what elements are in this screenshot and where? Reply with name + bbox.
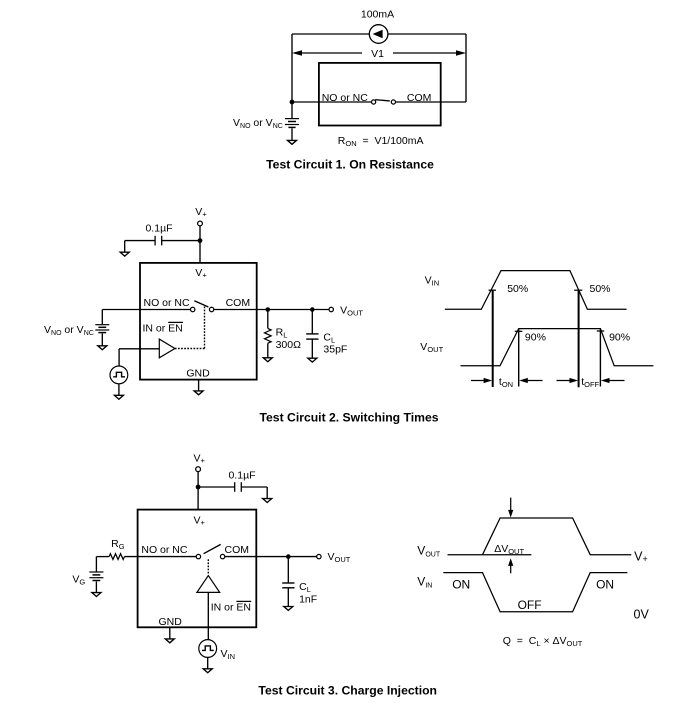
label ON left [452,578,470,592]
wire COM to loop [396,101,467,103]
marker line tON end [518,329,520,387]
terminal V+ [198,221,203,226]
DUT box U3 [138,510,257,628]
buffer driver A2 [197,576,220,593]
pin label GND [186,368,210,380]
capacitor CL 1nF [282,557,294,607]
caption Test Circuit 3 [258,684,437,698]
ground below RL [263,358,272,362]
marker line tOFF start [578,290,580,387]
trace VOUT pulse [483,518,632,555]
label V+ supply [193,452,205,465]
ground below GND pin [194,380,203,395]
svg-text:V1: V1 [371,48,384,60]
label dVOUT [494,543,524,556]
switch S1 [372,100,396,104]
battery V1 source [285,102,299,127]
label 90% fall [609,332,630,344]
label VIN (waveform) [417,575,432,590]
svg-text:0V: 0V [634,607,650,621]
marker line tOFF end [599,329,601,387]
ground below pulse generator [203,657,212,672]
label RG [111,538,125,551]
label VIN [221,648,236,661]
wire buffer to pulse generator [207,592,209,639]
pin label NO or NC [141,544,188,556]
ground below battery [98,334,107,350]
label 0V level [634,607,650,621]
svg-text:ON: ON [452,578,470,592]
marker line tON start [492,290,494,387]
dimension arrow dVOUT bottom [508,558,513,573]
trace VIN [445,271,627,310]
node CL junction [310,307,315,312]
label V_NO or V_NC [233,117,283,130]
dimension arrow V1 [292,48,466,60]
label VOUT [340,304,363,317]
value label RL 300 [276,327,302,351]
svg-text:300Ω: 300Ω [276,339,302,351]
value label 0.1uF [145,223,172,235]
value label CL 1nF [299,581,317,605]
buffer driver A1 [159,339,175,358]
svg-text:GND: GND [159,616,183,628]
switch S3 [196,544,225,558]
svg-text:50%: 50% [507,283,528,295]
wire top loop V1 [292,34,466,102]
svg-text:Test Circuit 1. On Resistance: Test Circuit 1. On Resistance [266,158,434,172]
svg-text:90%: 90% [525,332,546,344]
wire NO/NC to node [292,101,372,103]
dashed control line [207,559,209,574]
tick 50% rise [489,289,497,291]
svg-text:Test Circuit 2. Switching Time: Test Circuit 2. Switching Times [259,410,438,424]
pin label COM [407,92,432,104]
wire COM to VOUT [225,556,317,558]
value label CL 35pF [323,331,347,355]
dimension arrow tON [471,376,543,389]
DUT box U2 [140,263,257,380]
pulse generator VIN source [199,640,217,658]
switch S2 [191,301,214,312]
trace VOUT [461,329,654,366]
svg-text:35pF: 35pF [323,344,347,356]
pin label IN or EN (overline) [143,322,184,334]
ground below battery [288,128,297,144]
ground below CL [308,358,317,362]
svg-text:IN or EN: IN or EN [143,322,183,334]
capacitor CL 35pF [306,310,318,359]
current source I1 100mA [369,25,388,44]
label VOUT [328,551,351,564]
terminal VOUT [329,307,333,311]
wire pulse gen to buffer [119,349,159,366]
label V_NO or V_NC [44,324,94,337]
pin label NO or NC [322,92,369,104]
terminal VOUT [317,554,321,558]
label 90% rise [525,332,546,344]
node junction at battery [290,100,295,105]
ground at C2 [263,487,272,503]
battery V_NO/V_NC [95,310,109,333]
pin label GND [159,616,183,628]
node RL junction [266,307,271,312]
pin label NO or NC [144,297,191,309]
tick 90% fall [597,330,604,332]
resistor RG [96,554,196,560]
svg-text:OFF: OFF [518,598,542,612]
svg-text:0.1µF: 0.1µF [228,469,255,481]
pin label COM [225,544,250,556]
node V+ junction [198,238,203,243]
DUT box U1 [319,63,441,126]
label VG [72,574,85,587]
label ON right [596,578,614,592]
dimension arrow dVOUT top [508,498,513,518]
svg-text:NO or NC: NO or NC [144,297,191,309]
svg-text:COM: COM [226,297,251,309]
caption Test Circuit 2 [259,410,438,424]
wire V+ down to box [199,226,201,263]
svg-text:100mA: 100mA [361,9,394,21]
wire V+ down to box [197,472,199,510]
dimension arrow tOFF [557,376,625,389]
svg-text:Test Circuit 3. Charge Injecti: Test Circuit 3. Charge Injection [258,684,437,698]
pin label V+ (box) [195,267,207,280]
label VOUT (waveform) [420,341,443,354]
svg-text:1nF: 1nF [299,593,317,605]
ground below CL [284,607,293,611]
label OFF [518,598,542,612]
tick 50% fall [574,289,582,291]
resistor RL 300ohm [264,310,271,358]
ground below VG [92,581,101,596]
wire battery to switch [102,309,190,311]
ground below GND pin [165,627,174,643]
label VOUT (waveform) [417,544,441,559]
svg-text:0.1µF: 0.1µF [145,223,172,235]
capacitor C2 0.1uF [198,482,267,492]
ground below pulse generator [114,384,123,399]
pin label IN or EN (overline) [211,601,252,613]
label 100mA [361,9,394,21]
battery VG [89,557,103,581]
wire COM to VOUT [214,309,329,311]
label VIN (waveform) [425,275,440,288]
svg-text:50%: 50% [590,283,611,295]
terminal V+ [196,467,201,472]
svg-text:GND: GND [186,368,210,380]
label V+ supply [195,206,207,219]
svg-text:ON: ON [596,578,614,592]
dashed control line [175,305,205,348]
label 50% fall [590,283,611,295]
pin label COM [226,297,251,309]
trace VOUT baseline [448,554,532,556]
trace VIN [443,573,627,612]
value label R_ON = V1/100mA [338,135,424,148]
ground at C1 [120,241,129,257]
svg-text:COM: COM [225,544,250,556]
pin label V+ (box) [193,514,205,527]
node CL junction [286,554,291,559]
label 50% rise [507,283,528,295]
equation Q = CL x dVOUT [503,635,583,648]
tick 90% rise [515,330,523,332]
node V+ junction [196,485,201,490]
caption Test Circuit 1 [266,158,434,172]
svg-text:NO or NC: NO or NC [141,544,188,556]
capacitor C1 0.1uF [125,236,200,246]
svg-text:90%: 90% [609,332,630,344]
pulse generator V2 [110,366,128,384]
svg-text:IN or EN: IN or EN [211,601,251,613]
label V+ level [634,550,648,565]
value label 0.1uF [228,469,255,481]
